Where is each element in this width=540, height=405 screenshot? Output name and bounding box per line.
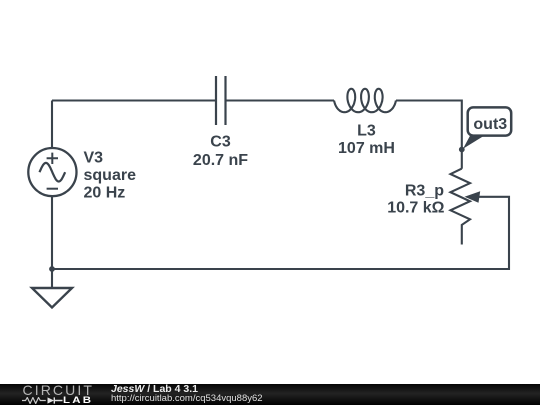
junction dot at ground node xyxy=(49,266,55,272)
out3 flag tail xyxy=(463,133,489,149)
svg-text:L3: L3 xyxy=(357,122,376,139)
svg-text:10.7 kΩ: 10.7 kΩ xyxy=(387,200,444,217)
svg-text:V3: V3 xyxy=(84,149,104,166)
logo resistor-diode glyph xyxy=(22,397,70,404)
potentiometer wiper arrow xyxy=(465,191,481,203)
wire capacitor to inductor xyxy=(226,99,335,101)
wire source top lead xyxy=(51,101,53,149)
logo CIRCUIT text xyxy=(23,382,94,398)
logo LAB text xyxy=(63,395,93,405)
wire source bottom lead xyxy=(51,196,53,269)
out3 flag box xyxy=(468,107,512,135)
inductor L3 xyxy=(334,89,396,112)
ground stub wire xyxy=(51,269,53,288)
svg-text:C3: C3 xyxy=(210,133,231,150)
voltage source V3 circle xyxy=(28,148,76,196)
footer title xyxy=(111,383,198,395)
wire inductor to top-right corner, down to potentiometer xyxy=(396,101,462,169)
svg-text:square: square xyxy=(84,167,137,184)
wire top-left horizontal xyxy=(52,99,216,101)
ground symbol triangle xyxy=(32,288,72,308)
potentiometer R3_p zigzag xyxy=(451,169,471,245)
voltage source sine wave xyxy=(40,163,66,182)
svg-text:20.7 nF: 20.7 nF xyxy=(193,152,248,169)
footer bar xyxy=(0,384,540,405)
minus sign xyxy=(47,188,58,190)
wire wiper to right rail xyxy=(52,197,509,269)
footer url xyxy=(111,393,263,404)
svg-text:out3: out3 xyxy=(473,116,507,133)
svg-text:107 mH: 107 mH xyxy=(338,140,395,157)
plus sign xyxy=(47,153,58,164)
node out3 dot xyxy=(459,147,465,153)
svg-text:R3_p: R3_p xyxy=(405,182,444,199)
svg-text:20 Hz: 20 Hz xyxy=(84,184,126,201)
capacitor C3 xyxy=(216,76,226,125)
